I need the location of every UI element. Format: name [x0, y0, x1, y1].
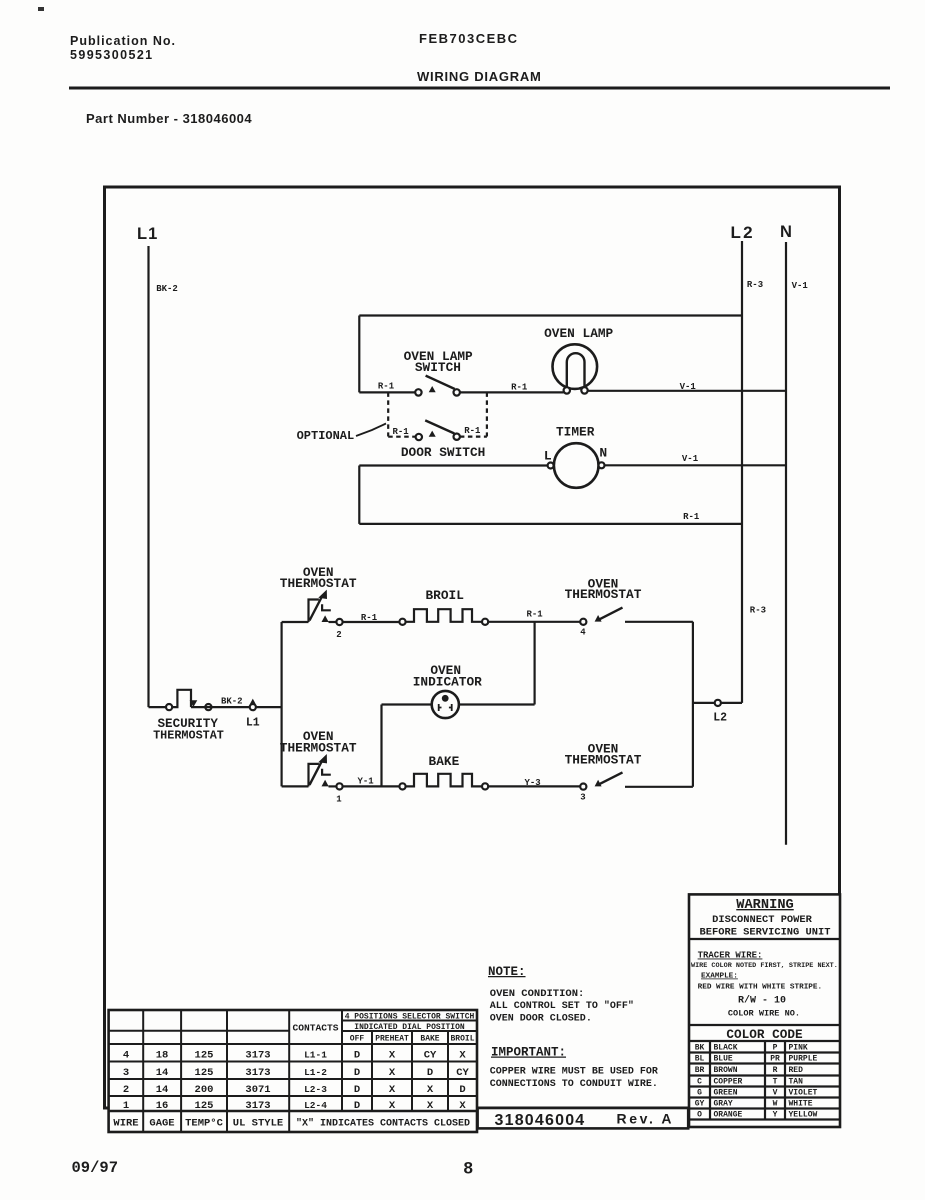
wire indicator riser to bake line: [380, 705, 382, 787]
oven thermostat (bake left) contact marker: [322, 780, 329, 787]
oven thermostat (bake left) bimetal step: [309, 764, 319, 787]
svg-text:N: N: [599, 446, 607, 461]
svg-text:PR: PR: [770, 1055, 780, 1064]
broil heating element: [406, 609, 482, 622]
wire lamp-loop left riser: [358, 316, 360, 393]
wire L1 bus vertical: [147, 246, 149, 707]
svg-text:D: D: [459, 1084, 465, 1096]
optional door switch dashed riser left: [387, 392, 389, 436]
svg-text:X: X: [459, 1100, 466, 1112]
oven thermostat (bake left) blade: [310, 760, 323, 785]
oven thermostat (bake left) stub to terminal: [329, 785, 337, 787]
table row lines: [109, 1021, 477, 1097]
wire timer-loop bottom to L2 bus: [359, 523, 742, 525]
svg-text:OVEN CONDITION:: OVEN CONDITION:: [490, 988, 585, 1000]
svg-text:GRAY: GRAY: [714, 1100, 733, 1109]
svg-text:14: 14: [156, 1067, 169, 1079]
svg-text:X: X: [389, 1084, 396, 1096]
color code row GY GRAY / W WHITE: [695, 1100, 813, 1109]
svg-text:R/W - 10: R/W - 10: [738, 995, 786, 1007]
svg-text:COPPER WIRE MUST BE USED FOR: COPPER WIRE MUST BE USED FOR: [490, 1067, 658, 1078]
svg-text:BL: BL: [695, 1055, 705, 1064]
wire security thermostat to L1 node: [191, 706, 250, 708]
svg-text:Y-1: Y-1: [357, 777, 374, 787]
wire broil/bake line from branch to thermostat (bake left): [282, 785, 309, 787]
timer terminal L: [548, 463, 554, 469]
svg-text:L: L: [544, 449, 552, 464]
svg-text:OPTIONAL: OPTIONAL: [297, 429, 355, 443]
svg-text:BK-2: BK-2: [156, 284, 178, 294]
wire L2 node stub: [693, 702, 742, 704]
svg-text:DOOR SWITCH: DOOR SWITCH: [401, 445, 485, 460]
svg-text:Rev. A: Rev. A: [617, 1111, 675, 1127]
door switch blade: [425, 420, 454, 433]
svg-text:8: 8: [464, 1159, 473, 1178]
svg-text:CONNECTIONS TO CONDUIT WIRE.: CONNECTIONS TO CONDUIT WIRE.: [490, 1079, 658, 1090]
svg-text:4: 4: [123, 1050, 129, 1062]
oven thermostat (bake right) contact marker: [595, 780, 602, 787]
wire indicator riser from broil line: [533, 622, 535, 705]
wire lamp-loop top from riser to L2 bus: [359, 314, 742, 316]
wire indicator line right: [459, 703, 535, 705]
svg-text:3173: 3173: [245, 1050, 270, 1062]
svg-text:BR: BR: [695, 1066, 705, 1075]
svg-text:THERMOSTAT: THERMOSTAT: [280, 741, 357, 756]
oven lamp switch terminal right: [454, 389, 460, 395]
svg-text:R-1: R-1: [378, 382, 395, 392]
svg-text:BK: BK: [695, 1044, 705, 1053]
oven thermostat (bake right) terminal pin 3: [580, 784, 586, 790]
svg-text:X: X: [427, 1100, 434, 1112]
node L1 marker triangle: [250, 699, 256, 705]
svg-text:125: 125: [195, 1100, 214, 1112]
svg-text:3071: 3071: [245, 1084, 270, 1096]
svg-text:L1-2: L1-2: [304, 1067, 327, 1078]
svg-text:ORANGE: ORANGE: [714, 1111, 743, 1120]
svg-text:R-1: R-1: [683, 512, 700, 522]
wire to bake element: [343, 785, 400, 787]
svg-text:INDICATED DIAL POSITION: INDICATED DIAL POSITION: [354, 1023, 465, 1032]
svg-text:BEFORE SERVICING UNIT: BEFORE SERVICING UNIT: [700, 926, 831, 938]
svg-text:FEB703CEBC: FEB703CEBC: [419, 31, 519, 46]
svg-text:TRACER WIRE:: TRACER WIRE:: [698, 951, 763, 961]
wire oven lamp to N bus: [588, 390, 786, 392]
svg-text:OVEN DOOR CLOSED.: OVEN DOOR CLOSED.: [490, 1013, 592, 1024]
svg-text:PURPLE: PURPLE: [789, 1055, 818, 1064]
color code row C COPPER / T TAN: [697, 1078, 803, 1087]
svg-text:NOTE:: NOTE:: [488, 965, 526, 979]
security thermostat contact arrow: [190, 700, 198, 707]
oven thermostat (broil right) terminal pin 4: [580, 619, 586, 625]
svg-text:THERMOSTAT: THERMOSTAT: [565, 587, 642, 602]
oven thermostat (broil right) blade: [598, 608, 623, 621]
svg-text:P: P: [773, 1044, 778, 1053]
svg-text:L2: L2: [713, 712, 727, 725]
svg-text:YELLOW: YELLOW: [789, 1111, 818, 1120]
wire L1 node to branch point: [256, 706, 282, 708]
oven thermostat (bake left) terminal pin 1: [336, 783, 342, 789]
svg-text:L2-3: L2-3: [304, 1084, 327, 1095]
svg-text:R-1: R-1: [511, 382, 528, 392]
wire N bus vertical: [785, 242, 787, 845]
svg-text:Publication No.: Publication No.: [70, 34, 176, 48]
oven thermostat (broil left) stub to terminal: [329, 621, 337, 623]
svg-text:3173: 3173: [245, 1100, 270, 1112]
table data row 3: wire 2: [123, 1084, 466, 1096]
wire timer N terminal to N bus: [605, 464, 787, 466]
oven thermostat (broil right) contact marker: [595, 615, 602, 622]
oven lamp terminal right: [581, 387, 587, 393]
svg-text:D: D: [354, 1067, 360, 1079]
oven indicator electrodes: [439, 704, 452, 711]
oven thermostat (broil left) heater bracket: [322, 604, 331, 610]
svg-text:Y: Y: [773, 1111, 778, 1120]
svg-text:R-3: R-3: [747, 280, 763, 290]
svg-text:COLOR WIRE NO.: COLOR WIRE NO.: [728, 1009, 800, 1019]
timer terminal N: [599, 462, 605, 468]
svg-text:V: V: [773, 1089, 778, 1098]
svg-text:THERMOSTAT: THERMOSTAT: [565, 753, 642, 768]
svg-text:UL STYLE: UL STYLE: [233, 1118, 283, 1130]
svg-text:DISCONNECT POWER: DISCONNECT POWER: [712, 914, 813, 926]
warning box border: [689, 894, 840, 1127]
OPTIONAL pointer line: [356, 424, 386, 437]
security thermostat body: [172, 690, 191, 707]
svg-text:D: D: [354, 1084, 360, 1096]
svg-text:R: R: [773, 1066, 778, 1075]
oven thermostat (broil left) terminal pin 2: [336, 619, 342, 625]
door switch moving contact marker: [429, 431, 436, 437]
oven thermostat (bake left) heater bracket: [322, 769, 331, 775]
svg-text:1: 1: [336, 795, 342, 805]
oven lamp switch terminal left: [415, 389, 421, 395]
table data row 1: wire 4: [123, 1050, 467, 1062]
svg-text:C: C: [697, 1078, 702, 1087]
svg-text:CY: CY: [456, 1067, 469, 1079]
bake heating element: [406, 774, 482, 787]
svg-text:T: T: [773, 1078, 778, 1087]
svg-text:09/97: 09/97: [72, 1159, 119, 1177]
svg-text:R-1: R-1: [361, 613, 378, 623]
svg-text:CY: CY: [424, 1050, 437, 1062]
svg-text:16: 16: [156, 1100, 169, 1112]
door switch terminal left: [416, 434, 422, 440]
svg-text:BLUE: BLUE: [714, 1055, 733, 1064]
svg-text:V-1: V-1: [682, 454, 699, 464]
svg-text:BROIL: BROIL: [425, 588, 464, 603]
oven indicator lamp envelope: [432, 691, 459, 718]
svg-text:D: D: [354, 1100, 360, 1112]
oven indicator dot electrode: [442, 695, 449, 702]
oven lamp terminal left: [564, 387, 570, 393]
svg-text:Part Number - 318046004: Part Number - 318046004: [86, 111, 252, 126]
broil element left terminal: [399, 619, 405, 625]
svg-text:"X" INDICATES CONTACTS CLOSED: "X" INDICATES CONTACTS CLOSED: [296, 1118, 470, 1130]
oven thermostat (broil left) blade: [310, 596, 323, 621]
svg-text:L2: L2: [731, 223, 755, 242]
broil element right terminal: [482, 619, 488, 625]
svg-text:X: X: [389, 1100, 396, 1112]
svg-text:L1: L1: [246, 717, 260, 730]
svg-text:O: O: [697, 1111, 702, 1120]
svg-text:OVEN LAMP: OVEN LAMP: [544, 326, 613, 341]
svg-text:N: N: [780, 223, 792, 241]
svg-text:V-1: V-1: [792, 281, 809, 291]
wire right thermostat to right riser (bake): [625, 786, 693, 788]
svg-text:RED WIRE WITH WHITE STRIPE.: RED WIRE WITH WHITE STRIPE.: [698, 984, 823, 992]
svg-text:D: D: [427, 1067, 433, 1079]
svg-text:COLOR CODE: COLOR CODE: [726, 1027, 803, 1042]
svg-text:D: D: [354, 1050, 360, 1062]
oven lamp bulb envelope: [553, 344, 598, 389]
svg-text:X: X: [389, 1067, 396, 1079]
wire dashed from door switch right: [460, 436, 487, 438]
wire L2 bus vertical: [741, 241, 743, 703]
svg-text:L2-4: L2-4: [304, 1100, 327, 1111]
svg-text:18: 18: [156, 1050, 169, 1062]
table data row 4: wire 1: [123, 1100, 467, 1112]
security thermostat terminal 2: [205, 704, 211, 710]
svg-text:X: X: [389, 1050, 396, 1062]
svg-text:318046004: 318046004: [495, 1112, 586, 1129]
wire to broil element: [343, 621, 400, 623]
svg-text:X: X: [459, 1050, 466, 1062]
svg-text:3: 3: [123, 1067, 129, 1079]
wire riser to oven lamp switch: [359, 391, 415, 393]
color code row BK BLACK / P PINK: [695, 1044, 808, 1053]
svg-text:CONTACTS: CONTACTS: [292, 1023, 338, 1034]
color code row G GREEN / V VIOLET: [697, 1089, 817, 1098]
svg-text:GAGE: GAGE: [149, 1118, 174, 1130]
header rule: [69, 87, 890, 90]
table footer column labels: [113, 1118, 283, 1130]
table column lines: [143, 1010, 289, 1132]
wire dashed into door switch left: [388, 436, 415, 438]
node L1 terminal circle: [250, 704, 256, 710]
svg-text:L1: L1: [137, 225, 158, 243]
table data row 2: wire 3: [123, 1067, 470, 1079]
svg-text:INDICATOR: INDICATOR: [413, 674, 482, 689]
svg-text:ALL CONTROL SET TO "OFF": ALL CONTROL SET TO "OFF": [490, 1000, 634, 1012]
svg-text:TIMER: TIMER: [556, 425, 595, 440]
wire right thermostat to right riser (broil): [625, 621, 693, 623]
svg-text:BAKE: BAKE: [429, 754, 460, 769]
svg-text:IMPORTANT:: IMPORTANT:: [491, 1046, 566, 1060]
svg-text:WIRE: WIRE: [113, 1118, 138, 1130]
svg-text:EXAMPLE:: EXAMPLE:: [701, 973, 738, 981]
svg-text:R-3: R-3: [750, 606, 766, 616]
svg-text:PREHEAT: PREHEAT: [375, 1035, 409, 1044]
bake element left terminal: [399, 783, 405, 789]
diagram border frame: [105, 187, 840, 1108]
oven thermostat (broil left) bimetal step: [309, 600, 319, 623]
wire branch riser broil-bake: [281, 622, 283, 786]
oven lamp filament: [567, 353, 585, 390]
wire indicator line left: [382, 703, 432, 705]
oven thermostat (broil left) contact marker: [322, 615, 329, 622]
svg-text:OFF: OFF: [350, 1035, 365, 1044]
scan speck top-left: [38, 7, 44, 11]
svg-text:BK-2: BK-2: [221, 697, 243, 707]
wire L1 bus corner into security thermostat: [149, 706, 167, 708]
oven thermostat (broil left) arrowhead: [318, 590, 327, 599]
svg-text:SWITCH: SWITCH: [415, 360, 461, 375]
svg-text:THERMOSTAT: THERMOSTAT: [280, 576, 357, 591]
svg-text:G: G: [697, 1089, 702, 1098]
timer motor circle: [554, 443, 599, 488]
color code row BR BROWN / R RED: [695, 1066, 803, 1075]
svg-text:1: 1: [123, 1100, 129, 1112]
wire lamp switch to oven lamp: [460, 391, 564, 393]
svg-text:2: 2: [123, 1084, 129, 1096]
svg-text:5995300521: 5995300521: [70, 48, 154, 62]
optional door switch dashed riser right: [486, 392, 488, 436]
svg-text:Y-3: Y-3: [524, 778, 540, 788]
wire broil/bake line from branch to thermostat (broil left): [282, 621, 309, 623]
svg-text:R-1: R-1: [464, 426, 481, 436]
svg-text:TEMP°C: TEMP°C: [185, 1118, 224, 1130]
svg-text:TAN: TAN: [789, 1078, 804, 1087]
svg-text:BLACK: BLACK: [714, 1044, 738, 1053]
svg-text:125: 125: [195, 1067, 214, 1079]
svg-text:WHITE: WHITE: [789, 1100, 813, 1109]
node L2 terminal circle: [715, 700, 721, 706]
warning box divider lines: [689, 939, 840, 1041]
oven lamp switch blade: [426, 376, 455, 389]
svg-text:L1-1: L1-1: [304, 1050, 327, 1061]
part number box: [478, 1108, 689, 1128]
color code row BL BLUE / PR PURPLE: [695, 1055, 818, 1064]
wire riser to timer L terminal: [359, 464, 547, 466]
svg-text:WARNING: WARNING: [736, 898, 794, 913]
svg-text:VIOLET: VIOLET: [789, 1089, 818, 1098]
svg-text:2: 2: [336, 630, 341, 640]
wire right riser broil-bake: [692, 622, 694, 787]
svg-text:BROWN: BROWN: [714, 1066, 738, 1075]
svg-text:4: 4: [580, 628, 586, 638]
svg-text:THERMOSTAT: THERMOSTAT: [153, 729, 224, 743]
oven thermostat (bake right) blade: [598, 772, 623, 785]
svg-text:PINK: PINK: [789, 1044, 808, 1053]
svg-text:R-1: R-1: [526, 610, 543, 620]
svg-text:GREEN: GREEN: [714, 1089, 738, 1098]
svg-text:BROIL: BROIL: [450, 1035, 474, 1044]
wire-gauge table outer border: [109, 1010, 477, 1132]
svg-text:RED: RED: [789, 1066, 804, 1075]
svg-text:4 POSITIONS SELECTOR SWITCH: 4 POSITIONS SELECTOR SWITCH: [345, 1013, 475, 1022]
oven lamp switch moving contact marker: [429, 386, 436, 392]
security thermostat terminal 1: [166, 704, 172, 710]
svg-text:BAKE: BAKE: [420, 1035, 439, 1044]
bake element right terminal: [482, 783, 488, 789]
svg-text:GY: GY: [695, 1100, 705, 1109]
color code table grid: [689, 1053, 840, 1120]
svg-text:125: 125: [195, 1050, 214, 1062]
svg-text:COPPER: COPPER: [714, 1078, 743, 1087]
door switch terminal right: [454, 434, 460, 440]
svg-text:3173: 3173: [245, 1067, 270, 1079]
svg-text:200: 200: [195, 1084, 214, 1096]
svg-text:R-1: R-1: [392, 427, 409, 437]
svg-text:3: 3: [580, 793, 585, 803]
svg-text:WIRE COLOR NOTED FIRST, STRIPE: WIRE COLOR NOTED FIRST, STRIPE NEXT.: [691, 962, 838, 970]
wire bake element to right thermostat: [488, 785, 580, 787]
svg-text:X: X: [427, 1084, 434, 1096]
oven thermostat (bake left) arrowhead: [318, 754, 327, 763]
wire timer-loop left riser: [358, 466, 360, 524]
svg-text:W: W: [773, 1100, 778, 1109]
svg-text:14: 14: [156, 1084, 169, 1096]
wire broil element to right thermostat: [488, 621, 580, 623]
color code row O ORANGE / Y YELLOW: [697, 1111, 817, 1120]
svg-text:WIRING DIAGRAM: WIRING DIAGRAM: [417, 69, 542, 84]
